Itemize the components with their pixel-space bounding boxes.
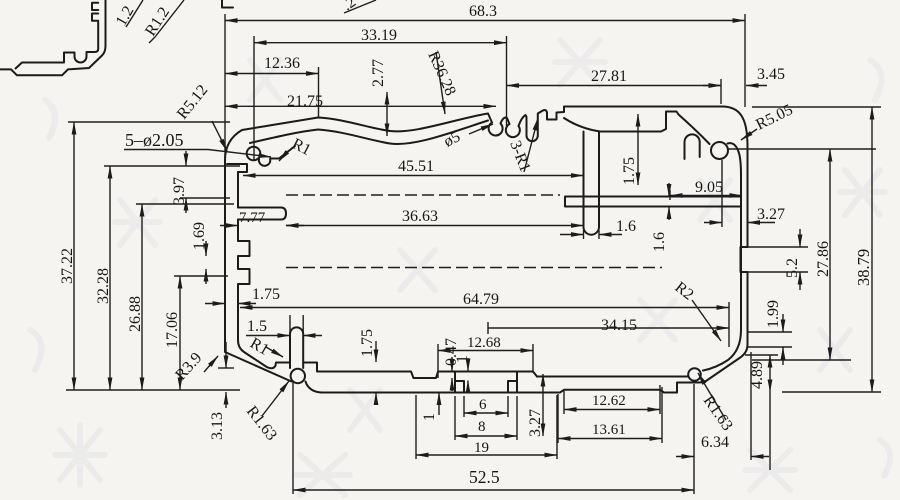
- svg-text:1.6: 1.6: [651, 232, 668, 252]
- dim 27.86: [727, 149, 876, 360]
- svg-text:12.36: 12.36: [264, 55, 300, 72]
- svg-text:6: 6: [479, 397, 487, 413]
- svg-text:9.05: 9.05: [695, 179, 723, 196]
- dim 12.68: [438, 335, 533, 378]
- dim 1.75 bottom mid: [359, 329, 376, 404]
- svg-text:1.75: 1.75: [252, 286, 280, 303]
- dim 19: [416, 395, 557, 459]
- svg-text:13.61: 13.61: [592, 422, 626, 438]
- dim 4.89: [745, 355, 778, 470]
- svg-text:8: 8: [478, 419, 486, 435]
- wall top ledge left: [227, 164, 247, 172]
- top-right screw boss circle: [711, 142, 728, 159]
- label R1.63 right: [698, 373, 736, 434]
- rib 7.77: [238, 208, 286, 220]
- left wall inner face upper: [237, 172, 239, 208]
- svg-text:17.06: 17.06: [164, 312, 181, 348]
- svg-text:21.75: 21.75: [287, 93, 323, 110]
- partA outer contour: [0, 0, 106, 75]
- dim 1.75 left mid: [205, 286, 280, 304]
- stem extension lines: [290, 315, 303, 334]
- svg-text:2.77: 2.77: [370, 59, 387, 87]
- dim 34.15: [488, 317, 729, 334]
- dim 1.5: [246, 318, 322, 336]
- dim 64.79: [240, 291, 729, 347]
- dim 3.27 right: [704, 160, 785, 227]
- dim 12.62: [564, 385, 660, 414]
- label 3-R1: [506, 118, 538, 174]
- dim 1 left of box: [421, 393, 439, 422]
- dim 68.3: [225, 3, 745, 160]
- dim 2.77: [370, 59, 387, 136]
- dim 9.05: [670, 179, 742, 200]
- dim 8: [455, 396, 517, 440]
- label R3.9: [172, 350, 218, 384]
- svg-text:36.63: 36.63: [402, 208, 438, 225]
- svg-text:12.62: 12.62: [592, 393, 626, 409]
- outer contour of enclosure: [225, 107, 748, 393]
- svg-text:27.81: 27.81: [591, 68, 627, 85]
- right wall inner face: [703, 143, 741, 370]
- svg-text:12.68: 12.68: [467, 335, 501, 351]
- dim 1.75 top right: [621, 114, 638, 185]
- left wall inner face with teeth: [238, 220, 290, 369]
- dim 7.77: [220, 210, 304, 226]
- bottom-left ball boss: [291, 369, 305, 383]
- label .2 top center: [340, 0, 376, 14]
- label R1.2: [142, 0, 184, 43]
- svg-text:45.51: 45.51: [398, 158, 434, 175]
- interior floor left segment: [303, 363, 537, 379]
- hat channel in bottom wall: [455, 372, 517, 393]
- dim 6: [464, 396, 508, 417]
- bottom-right screw boss: [688, 368, 701, 381]
- dim 3.13: [209, 342, 234, 440]
- label 5-o2.05: [124, 130, 271, 157]
- label R5.05: [741, 101, 796, 140]
- dim 1 mid: [454, 355, 471, 392]
- MAIN PROFILE: [225, 107, 748, 393]
- dim 32.28: [95, 166, 240, 390]
- svg-text:3.45: 3.45: [757, 66, 785, 83]
- dim 3.97: [171, 151, 230, 213]
- dim 1.6 horizontal: [560, 218, 636, 239]
- partA tooth 1: [92, 3, 98, 10]
- svg-text:5.2: 5.2: [784, 258, 801, 278]
- svg-text:1.75: 1.75: [359, 329, 376, 357]
- center phantom line lower: [286, 267, 662, 269]
- label R2: [672, 279, 721, 341]
- partA tooth 2: [92, 14, 98, 21]
- inner top wavy wall: [250, 121, 488, 144]
- dim 13.61: [558, 387, 662, 443]
- svg-text:1: 1: [421, 413, 438, 421]
- small bracket mark top: [222, 0, 233, 8]
- svg-text:5–ø2.05: 5–ø2.05: [125, 130, 184, 150]
- svg-text:33.19: 33.19: [361, 27, 397, 44]
- dim 12.36: [225, 55, 319, 117]
- dim 1.99: [748, 300, 792, 365]
- label R1 bottom-left: [247, 335, 283, 359]
- partA inner contour: [16, 22, 99, 69]
- svg-text:64.79: 64.79: [463, 291, 499, 308]
- inner top right wall: [564, 112, 679, 132]
- dim 1.69: [191, 222, 208, 284]
- svg-text:19: 19: [474, 440, 489, 456]
- svg-text:3.13: 3.13: [209, 412, 226, 440]
- dim 3.27 center: [527, 374, 544, 437]
- label R1 top-left: [279, 135, 314, 161]
- svg-text:1.6: 1.6: [616, 218, 636, 235]
- dim 5.2: [743, 229, 808, 290]
- dim 1.6 vertical: [651, 183, 669, 252]
- inner wedge slope to boss: [679, 115, 710, 145]
- dim 37.22: [59, 122, 240, 390]
- dim 27.81: [507, 68, 722, 104]
- interior floor right segment: [537, 376, 688, 378]
- svg-text:3.27: 3.27: [527, 409, 544, 437]
- svg-text:1.99: 1.99: [765, 300, 782, 328]
- svg-text:1.5: 1.5: [247, 318, 267, 335]
- dim 36.63: [286, 208, 584, 226]
- svg-text:34.15: 34.15: [601, 317, 637, 334]
- label R5.12: [174, 82, 227, 151]
- svg-text:4.89: 4.89: [749, 361, 766, 389]
- svg-text:7.77: 7.77: [239, 210, 266, 226]
- interior shelf right: [565, 197, 741, 207]
- svg-text:52.5: 52.5: [469, 467, 500, 487]
- svg-text:1.75: 1.75: [621, 157, 638, 185]
- bottom-left boss stem: [290, 327, 303, 368]
- svg-text:68.3: 68.3: [469, 3, 497, 20]
- T-rib stem: [584, 132, 600, 235]
- svg-text:3.27: 3.27: [757, 206, 785, 223]
- label o5: [441, 124, 493, 151]
- top-left screw boss circle: [247, 147, 261, 161]
- dim 45.51: [243, 158, 584, 176]
- dim 17.06: [164, 276, 228, 390]
- dim 3.45: [703, 66, 785, 86]
- dim 52.5: [293, 382, 694, 494]
- label R36.28: [424, 49, 459, 114]
- dim 26.88: [127, 204, 234, 390]
- dim 38.79: [752, 107, 881, 392]
- dim 33.19: [254, 27, 507, 161]
- label 1.2: [113, 0, 143, 29]
- inverted-U slot: [685, 134, 700, 159]
- center phantom line upper: [286, 194, 560, 196]
- PARTA: top-left partial profile: [0, 0, 376, 75]
- label R1.63 left: [243, 381, 289, 444]
- dim 6.34: [676, 352, 769, 460]
- dim 21.75: [225, 93, 496, 110]
- svg-text:38.79: 38.79: [854, 249, 873, 286]
- dim 0.47: [443, 338, 460, 391]
- svg-text:6.34: 6.34: [701, 434, 729, 451]
- top-left boss notch: [259, 146, 295, 166]
